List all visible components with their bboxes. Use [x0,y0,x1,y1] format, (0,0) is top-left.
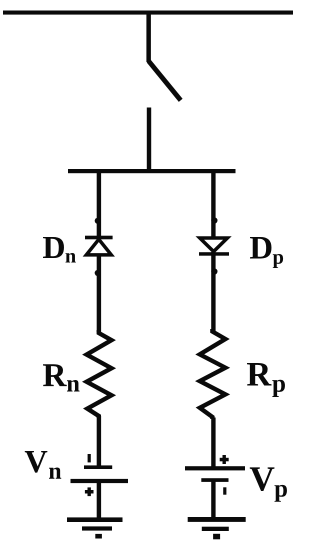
wire from top bus down to switch [146,12,151,62]
label Rn [43,364,80,391]
diode Dn [85,236,113,255]
label Vp [250,467,287,501]
node lower bus [68,169,236,173]
wire bus to Dn cathode [97,171,101,238]
label Rp [247,363,285,397]
ground left [67,517,123,538]
wire Rp to Vp [211,418,215,467]
wire Rn to Vn [97,416,101,466]
junction dot right upper [211,217,217,223]
resistor Rn [87,330,112,418]
label Dp [250,237,283,268]
wire bus to Dp anode [211,171,215,238]
ground right [188,517,246,539]
wire Vn to ground [97,481,101,518]
wire top bus [3,11,293,15]
wire from switch to lower bus [147,108,151,172]
battery Vn [71,454,129,496]
junction dot left lower [95,270,101,276]
junction dot right lower [211,268,217,274]
resistor Rp [200,329,226,419]
wire Dp cathode to Rp [211,252,215,331]
diode Dp [199,238,229,256]
switch S1 blade [149,61,181,100]
junction dot left upper [95,218,101,224]
wire Vp to ground [211,480,215,518]
wire Dn anode to Rn [97,254,101,332]
battery Vp [185,455,245,495]
label Vn [25,451,61,479]
label Dn [43,237,76,262]
